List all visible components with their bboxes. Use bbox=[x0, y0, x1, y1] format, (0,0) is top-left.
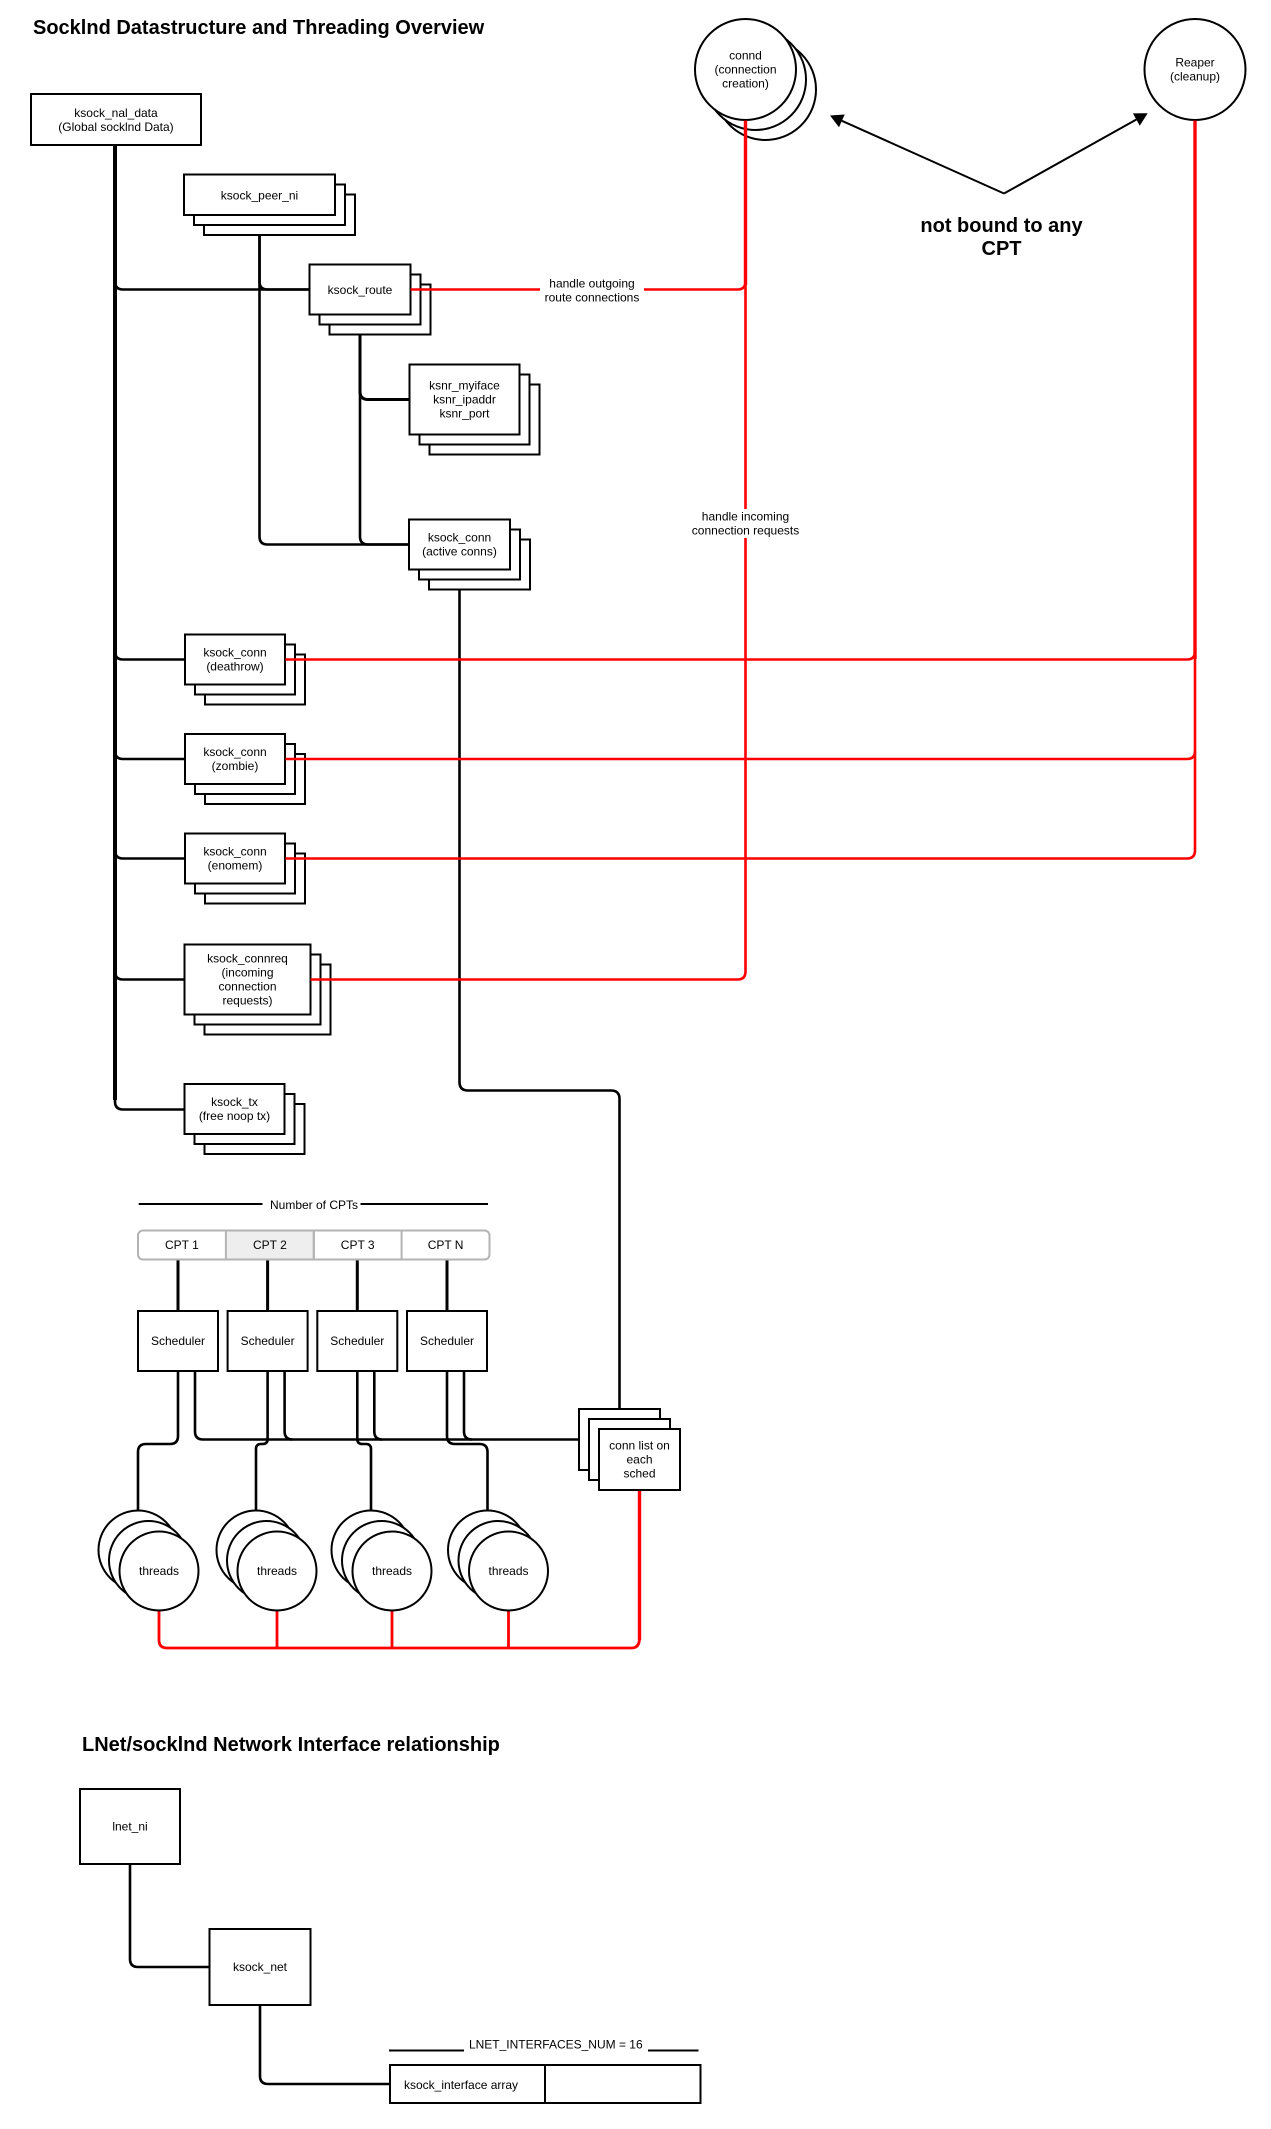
box stack ksock_peer_ni bbox=[184, 175, 355, 236]
svg-text:LNET_INTERFACES_NUM = 16: LNET_INTERFACES_NUM = 16 bbox=[469, 2038, 643, 2052]
wire CPTN to Scheduler4 bbox=[446, 1260, 449, 1312]
box stack ksock_conn zombie bbox=[185, 734, 305, 804]
red wire ksock_route to connd bbox=[411, 121, 746, 290]
svg-text:not bound to any: not bound to any bbox=[920, 215, 1083, 237]
wire ksock_net to ksock_interface array bbox=[260, 2005, 390, 2084]
svg-text:threads: threads bbox=[488, 1564, 528, 1578]
svg-text:each: each bbox=[626, 1453, 652, 1467]
CPT row bbox=[138, 1231, 490, 1260]
box stack ksock_conn enomem bbox=[185, 834, 305, 904]
svg-text:(incoming: (incoming bbox=[221, 966, 273, 980]
wire ksock_peer_ni to ksock_route bbox=[260, 215, 310, 290]
wire CPT2 to Scheduler2 bbox=[266, 1260, 269, 1312]
box stack ksock_tx bbox=[185, 1084, 305, 1154]
svg-text:connd: connd bbox=[729, 49, 762, 63]
wire Scheduler4 to threads4 bbox=[447, 1371, 488, 1511]
svg-text:Reaper: Reaper bbox=[1175, 56, 1214, 70]
wire CPT3 to Scheduler3 bbox=[356, 1260, 359, 1312]
wire Scheduler2 right to bus bbox=[285, 1371, 293, 1440]
svg-text:lnet_ni: lnet_ni bbox=[112, 1820, 147, 1834]
box Scheduler 4 bbox=[407, 1311, 487, 1371]
wire scheduler bus to conn list bbox=[195, 1371, 579, 1440]
svg-text:(free noop tx): (free noop tx) bbox=[199, 1109, 270, 1123]
svg-text:(active conns): (active conns) bbox=[422, 545, 497, 559]
svg-text:ksock_peer_ni: ksock_peer_ni bbox=[221, 189, 298, 203]
box Scheduler 3 bbox=[317, 1311, 397, 1371]
red wire deathrow to reaper bbox=[286, 652, 1196, 660]
svg-text:connection requests: connection requests bbox=[692, 524, 799, 538]
circle stack threads 2 bbox=[217, 1511, 317, 1611]
box lnet_ni bbox=[80, 1789, 180, 1864]
label not bound to any CPT bbox=[920, 215, 1083, 260]
svg-text:(connection: (connection bbox=[714, 63, 776, 77]
wire Scheduler3 to threads3 bbox=[357, 1371, 371, 1511]
wire branch ksock_nal_data to ksock_conn zombie bbox=[115, 743, 185, 759]
red wire riser threads2 bbox=[276, 1611, 279, 1649]
svg-text:CPT 3: CPT 3 bbox=[341, 1238, 375, 1252]
wire Scheduler2 to threads2 bbox=[256, 1371, 268, 1511]
wire ksock_route to ksock_conn active bbox=[360, 315, 409, 545]
wire branch ksock_nal_data to ksock_conn deathrow bbox=[115, 643, 185, 660]
red wire zombie to reaper bbox=[286, 751, 1196, 759]
svg-text:ksock_conn: ksock_conn bbox=[428, 531, 491, 545]
arrow to connd bbox=[830, 115, 1004, 194]
svg-text:Scheduler: Scheduler bbox=[241, 1334, 295, 1348]
label handle outgoing route connections bbox=[540, 276, 644, 305]
svg-text:conn list on: conn list on bbox=[609, 1439, 670, 1453]
svg-text:threads: threads bbox=[139, 1564, 179, 1578]
box ksock_net bbox=[210, 1929, 311, 2005]
red wire connd to ksock_connreq bbox=[311, 121, 746, 980]
circle stack threads 1 bbox=[99, 1511, 199, 1611]
svg-text:route connections: route connections bbox=[545, 291, 640, 305]
svg-text:ksock_net: ksock_net bbox=[233, 1960, 288, 1974]
red wire riser threads4 bbox=[507, 1611, 510, 1649]
red wire reaper vertical bbox=[1193, 121, 1196, 660]
wire branch ksock_nal_data to ksock_connreq bbox=[115, 963, 185, 980]
box stack conn list on each sched bbox=[579, 1409, 680, 1490]
label Number of CPTs with flanking lines bbox=[139, 1198, 488, 1212]
svg-text:(deathrow): (deathrow) bbox=[206, 660, 263, 674]
wire ksock_peer_ni to ksock_conn active bbox=[260, 215, 410, 545]
arrow to Reaper bbox=[1004, 113, 1148, 193]
wire branch ksock_nal_data to ksock_conn enomem bbox=[115, 842, 185, 859]
svg-text:creation): creation) bbox=[722, 77, 769, 91]
svg-text:ksock_conn: ksock_conn bbox=[203, 646, 266, 660]
label LNET_INTERFACES_NUM with flanking lines bbox=[389, 2038, 699, 2052]
wire spine from ksock_nal_data bbox=[113, 145, 117, 1100]
svg-text:CPT 1: CPT 1 bbox=[165, 1238, 199, 1252]
label handle incoming connection requests bbox=[687, 509, 804, 538]
svg-text:ksock_conn: ksock_conn bbox=[203, 745, 266, 759]
circle stack threads 3 bbox=[332, 1511, 432, 1611]
svg-text:connection: connection bbox=[218, 980, 276, 994]
svg-text:requests): requests) bbox=[222, 994, 272, 1008]
svg-text:ksnr_port: ksnr_port bbox=[439, 407, 490, 421]
box stack ksock_route bbox=[310, 265, 431, 335]
red wire connd trunk overlap bbox=[744, 121, 747, 286]
svg-text:ksock_tx: ksock_tx bbox=[211, 1095, 258, 1109]
box stack ksnr fields bbox=[410, 365, 540, 455]
svg-text:(zombie): (zombie) bbox=[212, 759, 259, 773]
red wire conn list trunk bbox=[638, 1490, 641, 1640]
svg-text:threads: threads bbox=[257, 1564, 297, 1578]
wire CPT1 to Scheduler1 bbox=[177, 1260, 180, 1312]
wire ksock_conn active to conn list bbox=[460, 570, 620, 1410]
svg-text:sched: sched bbox=[623, 1467, 655, 1481]
svg-text:(enomem): (enomem) bbox=[208, 859, 263, 873]
svg-text:CPT N: CPT N bbox=[428, 1238, 464, 1252]
circle Reaper bbox=[1145, 19, 1246, 120]
svg-text:handle outgoing: handle outgoing bbox=[549, 277, 634, 291]
wire Scheduler3 right to bus bbox=[374, 1371, 382, 1440]
circle stack connd bbox=[695, 19, 816, 140]
wire ksock_route to ksnr fields bbox=[360, 315, 410, 400]
svg-text:ksnr_myiface: ksnr_myiface bbox=[429, 379, 500, 393]
box ksock_nal_data bbox=[31, 94, 201, 145]
wire lnet_ni to ksock_net bbox=[130, 1864, 210, 1967]
svg-text:ksock_conn: ksock_conn bbox=[203, 845, 266, 859]
svg-text:threads: threads bbox=[372, 1564, 412, 1578]
red wire riser threads3 bbox=[391, 1611, 394, 1649]
svg-text:Number of CPTs: Number of CPTs bbox=[270, 1198, 358, 1212]
red wire conn list to threads bus bbox=[159, 1611, 640, 1649]
box stack ksock_connreq bbox=[185, 945, 331, 1035]
wire branch ksock_nal_data to ksock_tx bbox=[115, 1093, 185, 1110]
svg-text:(cleanup): (cleanup) bbox=[1170, 70, 1220, 84]
wire Scheduler1 to threads1 bbox=[138, 1371, 178, 1511]
svg-text:Scheduler: Scheduler bbox=[151, 1334, 205, 1348]
svg-text:CPT: CPT bbox=[982, 238, 1022, 260]
svg-text:handle incoming: handle incoming bbox=[702, 510, 789, 524]
svg-text:ksnr_ipaddr: ksnr_ipaddr bbox=[433, 393, 496, 407]
svg-text:Socklnd Datastructure and Thre: Socklnd Datastructure and Threading Over… bbox=[33, 17, 485, 39]
wire Scheduler4 right to bus bbox=[464, 1371, 472, 1440]
box ksock_interface array bbox=[390, 2065, 701, 2103]
svg-text:ksock_nal_data: ksock_nal_data bbox=[74, 106, 158, 120]
svg-text:Scheduler: Scheduler bbox=[330, 1334, 384, 1348]
svg-text:ksock_connreq: ksock_connreq bbox=[207, 952, 288, 966]
svg-text:CPT 2: CPT 2 bbox=[253, 1238, 287, 1252]
box stack ksock_conn active conns bbox=[409, 520, 530, 590]
svg-text:Scheduler: Scheduler bbox=[420, 1334, 474, 1348]
circle stack threads 4 bbox=[448, 1511, 548, 1611]
svg-text:ksock_route: ksock_route bbox=[328, 283, 393, 297]
box Scheduler 2 bbox=[228, 1311, 308, 1371]
box stack ksock_conn deathrow bbox=[185, 635, 305, 705]
red wire enomem to reaper bbox=[286, 851, 1196, 859]
svg-text:ksock_interface array: ksock_interface array bbox=[404, 2078, 518, 2092]
svg-text:LNet/socklnd Network Interface: LNet/socklnd Network Interface relations… bbox=[82, 1734, 500, 1756]
box Scheduler 1 bbox=[138, 1311, 218, 1371]
svg-text:(Global socklnd Data): (Global socklnd Data) bbox=[58, 120, 173, 134]
wire branch ksock_nal_data to ksock_route bbox=[115, 273, 310, 290]
